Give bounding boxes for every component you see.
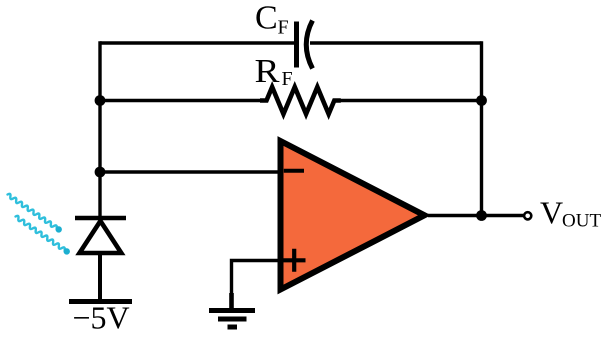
svg-text:C: C (255, 0, 278, 37)
wire: non-inverting input wire to ground stem (232, 261, 280, 297)
power rail -5V bar (69, 299, 132, 304)
wire: inverting input wire (100, 170, 279, 173)
node: junction dot right rail at resistor wire (476, 95, 487, 106)
svg-text:F: F (282, 68, 293, 90)
svg-text:V: V (540, 195, 563, 231)
photon arrow 1 (6, 192, 63, 234)
capacitor CF right curved plate (306, 21, 312, 69)
node: junction dot left at inverting input wire (95, 167, 106, 178)
photon arrow 2 (14, 214, 71, 256)
wire: right vertical feedback rail (480, 41, 483, 215)
svg-text:R: R (255, 53, 280, 90)
svg-text:F: F (278, 16, 289, 38)
wire: top feedback wire left segment (node to capacitor) (100, 41, 294, 44)
capacitor CF left plate (294, 22, 299, 68)
op-amp U1 triangle (281, 141, 425, 290)
node: junction dot at output (476, 210, 487, 221)
svg-text:OUT: OUT (562, 211, 601, 232)
wire: resistor feedback wire left segment (100, 99, 261, 102)
ground symbol (209, 308, 255, 313)
wire: ground stem lower lead (229, 293, 234, 309)
output terminal open circle (524, 212, 531, 219)
photodiode D1 cathode bar (75, 216, 126, 221)
node: junction dot left at resistor wire (95, 95, 106, 106)
photodiode lead to supply (98, 255, 102, 300)
photodiode D1 triangle (80, 221, 122, 253)
wire: output wire from op-amp apex to terminal (428, 214, 524, 217)
op-amp plus input symbol (283, 249, 306, 272)
resistor RF zigzag (260, 87, 341, 114)
op-amp minus input symbol (284, 169, 304, 173)
wire: top feedback wire right segment (capacitor to right rail) (310, 41, 482, 44)
svg-text:−5V: −5V (73, 300, 130, 336)
wire: left vertical rail from top wire down to photodiode (98, 41, 101, 220)
wire: resistor feedback wire right segment (340, 99, 482, 102)
